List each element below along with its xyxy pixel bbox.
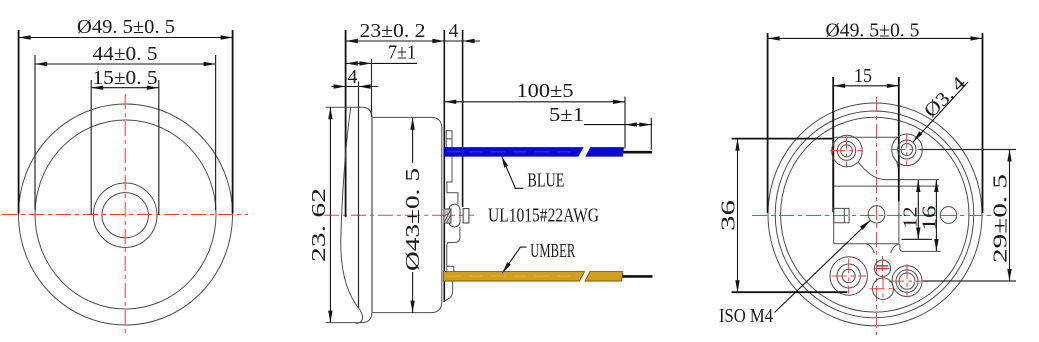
centerline horizontal middle view — [324, 214, 478, 216]
body front seam — [371, 117, 373, 312]
dim 4 top arrow — [463, 39, 475, 43]
blue wire bare conductor — [623, 151, 652, 154]
dim 100 arrow left — [444, 100, 456, 104]
dim 23.62 arrow top — [328, 107, 332, 119]
dim 29 bottom ref line — [923, 280, 1016, 282]
label UMBER leader line — [502, 247, 526, 273]
dim 29 arrow bottom — [1007, 269, 1011, 281]
dim D43 line lower — [412, 272, 414, 313]
right small circle — [940, 207, 956, 224]
terminal tab upper — [446, 131, 452, 148]
dim 4 top line — [444, 40, 480, 42]
dim 44 ext line left — [34, 55, 36, 210]
svg-text:12: 12 — [901, 207, 922, 229]
bottom center cross — [870, 275, 898, 303]
bracket bottom curve — [444, 281, 452, 302]
dome inner edge line — [358, 82, 360, 309]
blue wire segment 1 — [444, 148, 583, 157]
dim 44 ext line right — [215, 55, 217, 210]
boss circle lower-left — [830, 257, 867, 295]
umber wire bare conductor — [623, 275, 653, 278]
bracket top edge — [834, 136, 899, 138]
svg-text:4: 4 — [348, 67, 358, 88]
dim 16 line — [935, 180, 937, 251]
hole lower-right outer — [896, 270, 918, 293]
svg-text:15: 15 — [854, 66, 872, 87]
hole lower-left outer — [837, 264, 860, 288]
bracket lower step — [447, 227, 460, 266]
outer shell circle D49.5 — [19, 104, 233, 325]
umber wire segment 1 — [443, 272, 584, 281]
dim D49.5 ext left — [767, 33, 769, 213]
svg-text:29±0. 5: 29±0. 5 — [991, 174, 1012, 263]
body outline — [372, 117, 442, 312]
dim 23 arrow right — [432, 39, 444, 43]
blue wire segment 2 — [586, 148, 624, 157]
dim D49.5 ext line left — [18, 30, 20, 214]
dim 44 line — [35, 63, 216, 65]
bolt section hatched — [444, 209, 451, 223]
boss circle lower-right — [892, 266, 922, 297]
dim 100 arrow right — [613, 100, 625, 104]
boss circle upper-left — [832, 135, 863, 167]
dim D49.5 arrow left — [768, 36, 780, 40]
dim 15 arrow right — [147, 86, 159, 90]
slotted circle — [874, 260, 890, 277]
hole upper-right outer — [898, 140, 916, 159]
dome top edge — [326, 107, 372, 117]
centerline horizontal right view — [752, 215, 997, 217]
bracket upper step — [447, 155, 458, 204]
hole upper-left inner — [841, 145, 853, 157]
bolt hatch lines — [444, 210, 450, 223]
dim D49.5 line — [19, 37, 233, 39]
center hole circle — [102, 193, 148, 238]
dim 100 ext line right — [624, 97, 626, 149]
label UMBER leader arrow — [502, 262, 511, 273]
dim 29 top ref line — [920, 149, 1016, 151]
dim 15 arrow left — [91, 86, 103, 90]
dim 15 ext line right — [158, 80, 160, 215]
dim 44 arrow left — [35, 62, 47, 66]
dim 5 arrow right — [639, 122, 651, 126]
centerline horizontal left view — [2, 214, 248, 216]
dim 15 line — [91, 87, 159, 89]
label BLUE leader line — [502, 156, 524, 189]
dim 44 arrow right — [204, 62, 216, 66]
dim D49.5 ext right — [982, 33, 984, 213]
bracket fillet line — [858, 162, 939, 180]
svg-text:16: 16 — [920, 205, 941, 230]
side tab rect — [834, 208, 849, 222]
slot marks — [877, 266, 888, 269]
outer shell circle — [768, 103, 982, 326]
dim 15 ext right — [898, 77, 900, 202]
svg-text:23. 62: 23. 62 — [309, 188, 330, 262]
dim 36 bottom ref line — [732, 291, 848, 293]
dim 15 arrow right — [887, 84, 899, 88]
hole upper-left cross — [830, 135, 863, 168]
svg-text:44±0. 5: 44±0. 5 — [93, 44, 158, 65]
dim 36 arrow bottom — [735, 280, 739, 292]
bracket right edge extension — [462, 30, 464, 207]
umber wire segment 2 — [585, 272, 623, 281]
dim 4 left arrow a — [334, 84, 346, 88]
dim 7 arrow right — [360, 61, 372, 65]
dim 7 ext line right — [371, 59, 373, 117]
bracket mid line — [834, 185, 939, 187]
dim 15 ext line left — [90, 80, 92, 215]
dim 16 arrow bottom — [934, 239, 938, 251]
svg-text:BLUE: BLUE — [527, 171, 564, 192]
svg-text:UL1015#22AWG: UL1015#22AWG — [488, 206, 599, 227]
inner circle — [781, 117, 969, 312]
dim 12 arrow top — [916, 180, 920, 192]
svg-text:15±0. 5: 15±0. 5 — [93, 68, 158, 89]
main left extension line — [345, 30, 347, 217]
middle circle — [775, 111, 974, 318]
svg-text:100±5: 100±5 — [517, 81, 574, 102]
dim 7 line — [346, 62, 417, 64]
umber wire highlight dash — [447, 275, 570, 277]
dim 23 line — [346, 40, 445, 42]
body back face line — [443, 30, 445, 302]
svg-text:ISO M4: ISO M4 — [719, 306, 773, 327]
plate neck curve right of slotted circle — [891, 244, 898, 253]
dim 16 arrow top — [934, 180, 938, 192]
dim D49.5 ext line right — [232, 30, 234, 214]
svg-text:UMBER: UMBER — [530, 241, 575, 262]
bottom center circle — [873, 278, 894, 300]
flange circle D44 — [35, 120, 216, 309]
dim 23 arrow left — [346, 39, 358, 43]
label ISO M4 leader arrow — [860, 220, 870, 230]
dim 15 line — [833, 85, 899, 87]
dim D3.4 leader line — [913, 82, 968, 142]
dim 5 arrow left — [625, 122, 637, 126]
svg-text:Ø49. 5±0. 5: Ø49. 5±0. 5 — [77, 17, 175, 38]
dim 5 ext line right — [650, 118, 652, 150]
dim 36 top ref line — [732, 138, 834, 140]
dome bottom edge — [326, 313, 372, 323]
terminal tab lower — [447, 266, 454, 272]
dim D49.5 arrow left — [19, 35, 31, 39]
centerline vertical left view — [124, 94, 126, 336]
dim 29 arrow top — [1007, 150, 1011, 162]
dim 15 ext left — [832, 77, 834, 212]
blue wire highlight dash — [447, 151, 576, 153]
svg-text:Ø43±0. 5: Ø43±0. 5 — [403, 168, 424, 271]
dim 4 left line — [332, 86, 379, 88]
hole upper-left outer — [837, 141, 855, 160]
hole lower-left cross — [832, 259, 867, 294]
dim 12 bottom ref — [902, 238, 933, 240]
center boss circle — [93, 183, 157, 247]
nut rect — [463, 209, 469, 223]
hole lower-left inner — [842, 269, 855, 282]
dim 100 line — [444, 101, 625, 103]
dim 36 line — [737, 139, 739, 293]
dim 5 line — [584, 124, 652, 126]
centerline vertical right view — [876, 97, 878, 335]
dim D43 arrow bottom — [410, 301, 414, 313]
dim D43 line upper — [412, 118, 414, 163]
dim 12 arrow bottom — [916, 228, 920, 240]
center hole — [868, 206, 885, 223]
washer stadium — [449, 204, 460, 227]
dome left arc — [341, 107, 363, 323]
dim 23.62 line — [329, 107, 331, 322]
label ISO M4 leader line — [775, 220, 871, 312]
hole lower-right inner — [899, 273, 915, 289]
label BLUE leader arrow — [502, 156, 509, 168]
plate neck curve left of slotted circle — [867, 244, 875, 253]
dim 4 left arrow b — [359, 84, 371, 88]
dim 29 line — [1009, 150, 1011, 282]
bracket fillet right — [897, 162, 900, 179]
svg-text:5±1: 5±1 — [549, 105, 584, 126]
svg-text:7±1: 7±1 — [388, 43, 416, 64]
boss circle upper-right — [892, 134, 923, 166]
hole lower-right cross — [889, 264, 927, 298]
dim D3.4 leader arrow — [913, 131, 922, 142]
bracket right edge — [898, 137, 900, 244]
bracket left edge — [833, 137, 835, 244]
dim D43 arrow top — [410, 118, 414, 130]
svg-text:36: 36 — [719, 200, 740, 231]
svg-text:Ø49. 5±0. 5: Ø49. 5±0. 5 — [826, 21, 920, 42]
dim 15 arrow left — [833, 84, 845, 88]
svg-text:4: 4 — [449, 21, 459, 42]
svg-text:23±0. 2: 23±0. 2 — [360, 21, 426, 42]
dim D49.5 arrow right — [971, 36, 983, 40]
dim 23.62 arrow bottom — [328, 311, 332, 323]
hole upper-right cross — [891, 133, 924, 166]
dim 12 line — [917, 180, 919, 240]
dim 7 arrow left — [346, 61, 358, 65]
dim D49.5 arrow right — [221, 35, 233, 39]
slotted circle cross — [875, 256, 891, 281]
hole upper-right inner — [901, 144, 913, 156]
bracket bottom edge with step — [834, 244, 941, 252]
dim D49.5 line — [768, 37, 983, 39]
dim 36 arrow top — [735, 139, 739, 151]
